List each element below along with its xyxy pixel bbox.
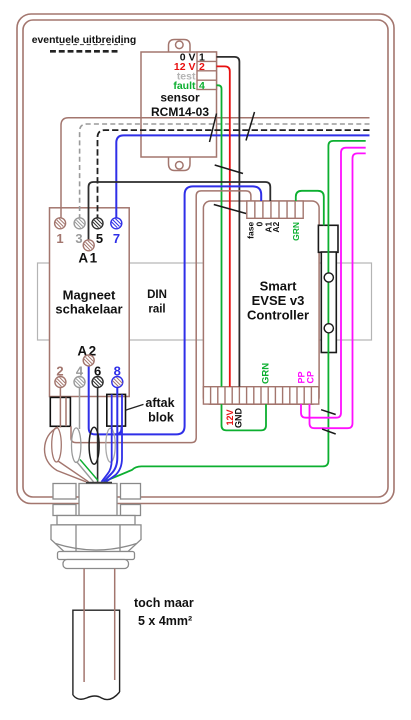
wire black slack loop ellipse	[89, 427, 99, 464]
sensor RCM14-03 top mounting tab	[169, 40, 191, 53]
svg-text:toch maar: toch maar	[134, 596, 194, 610]
thin dashed underline	[60, 44, 124, 46]
wire magenta PP	[301, 148, 366, 418]
wire gray contactor 4 down	[79, 387, 81, 429]
svg-text:Controller: Controller	[247, 308, 309, 323]
wire brown contactor 2 down through left block	[59, 387, 61, 428]
cable core wire L2	[114, 569, 116, 681]
svg-text:blok: blok	[148, 411, 174, 425]
cable slash mark right of sensor	[246, 112, 255, 141]
sensor terminal block	[197, 52, 217, 90]
wire brown EVSE fase to aftak blok	[71, 191, 251, 443]
Smart EVSE v3 controller board	[203, 201, 319, 404]
svg-text:sensor: sensor	[160, 91, 200, 105]
wire blue contactor A2 to EVSE 0	[89, 186, 262, 434]
aftak blok right block	[107, 394, 126, 426]
wire brown stub in left block	[65, 397, 67, 426]
wire gray slack loop ellipse	[72, 428, 81, 463]
wire green GRN to fuse top	[296, 191, 324, 226]
svg-text:schakelaar: schakelaar	[55, 302, 122, 317]
contactor terminal 4 screw	[74, 377, 85, 388]
wire blue contactor 8 down through right block to gland	[104, 387, 118, 482]
wire sensor 0V black	[217, 57, 240, 387]
wire brown slack loop ellipse	[52, 428, 62, 462]
svg-text:Magneet: Magneet	[63, 288, 116, 303]
wire sensor fault green	[217, 85, 222, 386]
wire blue stub right block a	[102, 394, 112, 481]
contactor coil terminal A2 screw	[83, 355, 94, 366]
svg-text:5: 5	[96, 231, 103, 246]
cable gland body (wartel)	[51, 484, 141, 569]
svg-text:Smart: Smart	[260, 279, 298, 294]
aftak blok pointer line	[126, 404, 144, 410]
fuse holder F1 body	[321, 252, 336, 353]
contactor terminal 7 screw	[111, 218, 122, 229]
contactor terminal 8 screw	[112, 377, 123, 388]
enclosure outer wall	[17, 14, 394, 504]
svg-text:eventuele uitbreiding: eventuele uitbreiding	[32, 35, 137, 46]
wire black contactor A1 to EVSE A1	[89, 182, 271, 241]
svg-text:A1: A1	[78, 251, 98, 266]
svg-text:GRN: GRN	[291, 222, 301, 241]
EVSE top terminal strip	[247, 201, 303, 218]
contactor terminal 1 screw	[55, 218, 66, 229]
wire brown slack loop left	[45, 427, 87, 482]
svg-text:GND: GND	[234, 408, 244, 429]
cable slash mark on PP loop	[321, 410, 336, 415]
svg-text:4: 4	[199, 80, 205, 92]
wire sensor 12V red	[217, 66, 230, 386]
aftak blok left block	[50, 397, 70, 426]
fuse holder F1 top cap	[318, 225, 338, 252]
cable slash mark below sensor	[215, 165, 243, 174]
cable slash mark at EVSE entry	[214, 205, 246, 214]
wire gray dashed top bundle to contactor 3	[80, 124, 370, 218]
svg-text:DIN: DIN	[147, 289, 167, 301]
wire brown loop exit to gland	[58, 461, 89, 482]
wire magenta CP	[310, 153, 366, 428]
svg-text:7: 7	[113, 231, 120, 246]
enclosure inner wall	[23, 20, 388, 497]
fuse F1 contact circle top	[324, 273, 333, 282]
contactor coil terminal A1 screw	[83, 240, 94, 251]
wire green stub into gland	[80, 460, 98, 481]
gland mouth wire cluster	[86, 482, 112, 484]
contactor K1 Magneet schakelaar body	[50, 208, 130, 397]
wire L1 brown top bundle to contactor 1	[61, 118, 370, 219]
sensor top tab hole	[176, 41, 184, 49]
cable core wire L1	[83, 569, 85, 683]
svg-text:1: 1	[56, 231, 63, 246]
EVSE bottom terminal strip	[203, 387, 318, 404]
sensor RCM14-03 body	[141, 52, 217, 157]
sensor RCM14-03 bottom mounting tab	[169, 157, 191, 171]
wire green GND loop under EVSE strip	[222, 404, 267, 430]
sensor bottom tab hole	[176, 162, 184, 170]
svg-text:GRN: GRN	[261, 363, 272, 384]
cable slash mark inside sensor	[210, 114, 217, 143]
svg-text:5 x 4mm²: 5 x 4mm²	[138, 614, 192, 628]
DIN rail	[38, 263, 372, 340]
contactor terminal 3 screw	[74, 218, 85, 229]
cable jacket 5x4mm2	[73, 610, 120, 699]
svg-text:EVSE v3: EVSE v3	[252, 293, 305, 308]
svg-text:RCM14-03: RCM14-03	[151, 105, 209, 119]
wire blue neutral top bundle to contactor 7	[116, 135, 369, 218]
wire black dashed top bundle to contactor 5	[98, 130, 370, 218]
svg-text:rail: rail	[148, 304, 165, 316]
fuse F1 contact circle bottom	[324, 324, 333, 333]
svg-text:A2: A2	[271, 222, 281, 233]
wire green earth from top right through fuse to gland	[104, 141, 366, 482]
contactor terminal 6 screw	[92, 377, 103, 388]
wire gray slack loop ellipse right	[106, 428, 115, 462]
wire blue riser into aftak blok	[112, 426, 122, 434]
thick dashed annotation line	[50, 50, 119, 53]
wire gray loop exit to gland	[77, 462, 94, 482]
svg-text:aftak: aftak	[145, 396, 174, 410]
svg-text:3: 3	[75, 231, 82, 246]
contactor terminal 5 screw	[92, 218, 103, 229]
svg-text:2: 2	[199, 61, 205, 73]
wire blue stub right block b	[106, 394, 122, 481]
contactor terminal 2 screw	[55, 377, 66, 388]
cable slash mark on CP loop	[322, 429, 336, 434]
svg-text:CP: CP	[305, 371, 315, 384]
wire black contactor 6 down to gland	[97, 387, 99, 482]
